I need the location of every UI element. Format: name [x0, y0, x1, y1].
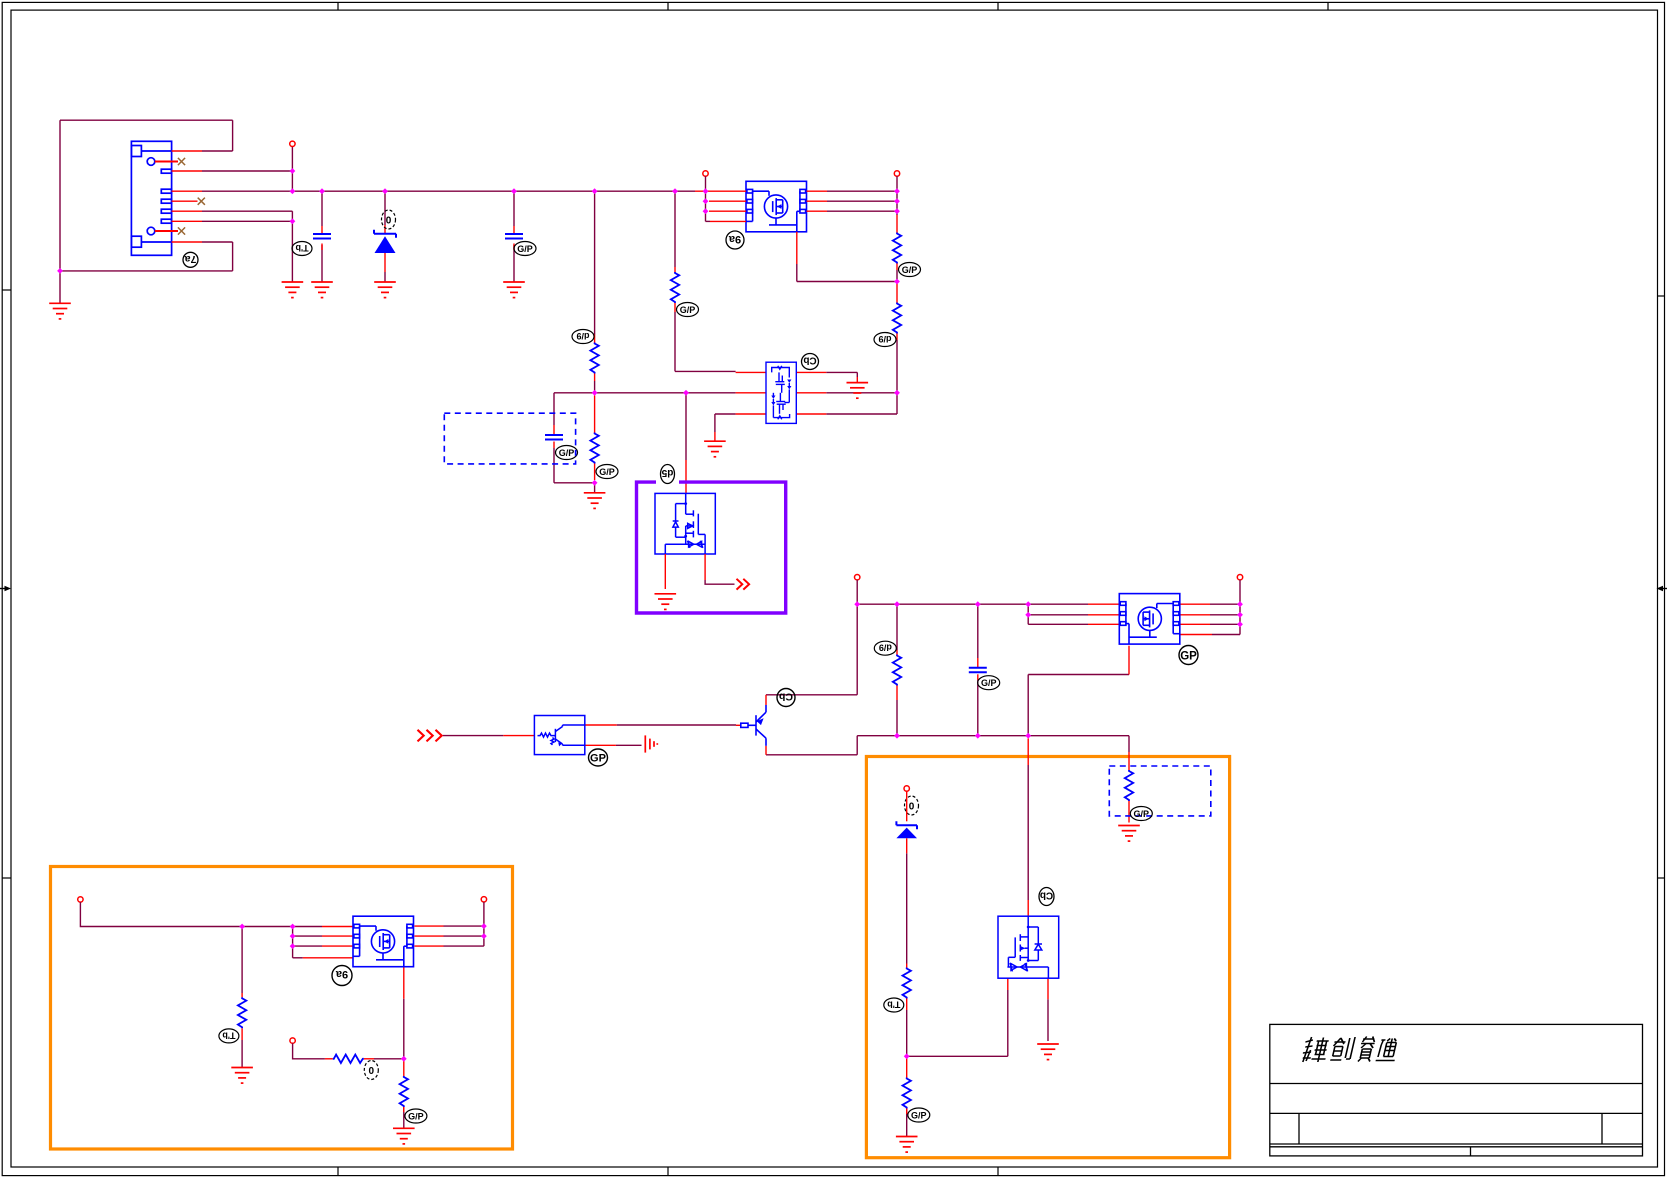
resistor R7 — [903, 968, 911, 999]
red Q7 right pin — [1047, 978, 1049, 999]
junction dualQ right row2 — [894, 390, 900, 396]
wire R3 top from bus — [594, 191, 596, 334]
wire pin7 horizontal — [202, 220, 292, 222]
mosfet Q8 qa2 package — [353, 916, 414, 967]
red R2 bottom — [896, 334, 898, 341]
svg-text:d/9: d/9 — [878, 334, 891, 344]
wire Q7 drain feed — [1027, 765, 1029, 900]
wire GP bottom L vertical — [1027, 675, 1029, 736]
junction Q1 left row1 — [703, 188, 709, 194]
red Q1 row2 left stub — [709, 200, 746, 202]
red qa2 right row2 — [415, 935, 444, 937]
pin5 stub nc — [172, 200, 198, 202]
no-connect X pin5 — [198, 198, 205, 205]
terminal bus2 right — [1237, 575, 1242, 580]
wire dualQ row3 right — [826, 413, 897, 415]
svg-text:Cb: Cb — [1040, 890, 1053, 901]
dual mosfet Q2 label — [802, 354, 819, 370]
red opto input stub — [503, 735, 534, 737]
resistor R12 label — [405, 1109, 427, 1123]
red D1 top — [384, 225, 386, 234]
junction Q1 right row3 — [894, 208, 900, 214]
ground C1 — [311, 282, 333, 298]
junction pin7 — [290, 218, 296, 224]
terminal R11 left — [290, 1038, 295, 1043]
zener D1 label — [382, 210, 396, 229]
wire dualQ row1 right — [826, 371, 857, 373]
wire row736 — [857, 735, 1129, 737]
junction bus R3 — [592, 188, 598, 194]
red D1 bottom — [384, 253, 386, 272]
junction bus2 R6 — [894, 601, 900, 607]
wire hook left vertical — [59, 120, 61, 303]
wire GP right row2 — [1210, 614, 1240, 616]
terminal VT1 — [290, 141, 295, 146]
top zone tick 1 — [337, 2, 339, 10]
wire row624 — [1028, 623, 1088, 625]
junction bus C1 — [319, 188, 325, 194]
wire Q7 source drop — [1007, 990, 1009, 1056]
wire qa2 right row1 — [444, 925, 484, 927]
resistor R4 — [590, 433, 598, 464]
junction right col row3 — [1237, 621, 1243, 627]
wire qa2 right row3 — [444, 945, 484, 947]
junction R11 R12 — [401, 1056, 407, 1062]
wire dualQ row3 gnd drop — [714, 414, 716, 432]
bottom zone tick 2 — [667, 1167, 669, 1176]
svg-text:d5: d5 — [661, 467, 673, 478]
wire qa2 right row2 — [444, 935, 484, 937]
red opto row1 stub — [585, 724, 617, 726]
red GP right row3 stub — [1180, 623, 1210, 625]
red qa2 row3 left — [322, 945, 353, 947]
red C4 bottom — [553, 442, 555, 449]
mosfet Q4 label — [1179, 646, 1198, 665]
red R3 top — [594, 335, 596, 343]
title block cell divider right — [1601, 1113, 1603, 1144]
resistor R1 label — [899, 263, 921, 277]
red qa2 row2 left — [322, 935, 353, 937]
junction R1 bottom — [894, 279, 900, 285]
resistor R2 — [893, 303, 901, 334]
svg-text:T'b: T'b — [222, 1030, 236, 1040]
resistor R5 label — [677, 303, 699, 317]
red gate drop into purple box — [685, 460, 687, 493]
pin2 stub nc — [155, 161, 178, 163]
junction qa2 col row3 — [290, 943, 296, 949]
red C2 top — [513, 226, 515, 234]
wire zener D1 bottom lead — [384, 272, 386, 282]
svg-text:G/P: G/P — [902, 265, 918, 275]
svg-text:7a: 7a — [185, 253, 197, 265]
wire R9 feed — [1128, 736, 1130, 752]
purple function box — [637, 482, 786, 613]
bottom zone tick 3 — [997, 1167, 999, 1176]
wire R5 bottom — [674, 312, 676, 371]
junction bus2 left — [854, 601, 860, 607]
capacitor C5 label — [978, 676, 1000, 690]
mosfet Q1 package — [746, 181, 807, 232]
mosfet Q1 label — [726, 231, 744, 249]
mosfet Q7 package — [998, 916, 1059, 978]
junction Q1 left row2 — [703, 198, 709, 204]
wire zener D1 top lead — [384, 191, 386, 225]
junction bus3 qa2 — [290, 924, 296, 930]
red qa2 bottom pin — [403, 967, 405, 999]
resistor R5 — [671, 272, 679, 303]
wire R3 bottom — [594, 381, 596, 393]
zener D2 label — [905, 796, 919, 815]
mosfet Q3 package in purple box — [655, 493, 715, 554]
wire row372 horizontal — [675, 370, 736, 372]
junction row736 C5 — [975, 733, 981, 739]
title block row line 2 — [1270, 1112, 1643, 1114]
wire R7 to junction — [906, 1010, 908, 1056]
red GP right row4 stub — [1180, 634, 1212, 636]
wire cap C1 top lead — [321, 191, 323, 226]
title block row line 1 — [1270, 1083, 1643, 1085]
red pin segments near components — [322, 225, 514, 272]
svg-text:G/P: G/P — [599, 467, 615, 477]
wire pin6 drop vertical — [291, 211, 293, 282]
wire C5 top — [977, 604, 979, 658]
red Q6 emitter stub — [765, 746, 767, 755]
left mid edge arrow — [0, 586, 11, 592]
wire GP right row1 — [1210, 603, 1240, 605]
red R11 left — [325, 1058, 333, 1060]
wire bus2 left drop to collector — [856, 604, 858, 695]
terminal Q1 left — [703, 171, 708, 176]
mosfet Q8 label — [332, 966, 352, 986]
title block bottom divider — [1470, 1147, 1472, 1156]
connector J1 body — [131, 141, 171, 255]
red Q7 drain upper — [1027, 739, 1029, 766]
optocoupler U1 package — [534, 716, 584, 755]
wire cap C1 bottom lead — [321, 245, 323, 282]
red bus3 into qa2 — [322, 926, 353, 928]
wire Q1 bottom to R1 — [797, 281, 897, 283]
red C1 bottom — [321, 244, 323, 251]
red Q1 row2 right stub — [807, 200, 828, 202]
svg-text:T'b: T'b — [887, 1000, 901, 1010]
pin3 stub — [172, 170, 202, 172]
wire gate drop from row393 — [685, 393, 687, 460]
red R4 top — [594, 396, 596, 433]
title block outer box — [1270, 1024, 1643, 1156]
pin9 stub — [172, 241, 202, 243]
resistor R7 label — [884, 998, 904, 1012]
svg-text:9a: 9a — [728, 233, 741, 245]
pin8 stub nc — [155, 230, 178, 232]
wire hook right vertical top — [232, 120, 234, 151]
red dualQ row3 gnd — [714, 432, 716, 441]
red Q1 row1 left stub — [695, 190, 746, 192]
resistor R3 label — [572, 330, 594, 344]
red C2 bottom — [513, 244, 515, 251]
svg-text:G/P: G/P — [680, 305, 696, 315]
wire GP bottom L horizontal — [1028, 674, 1129, 676]
red dualQ row3 right stub — [796, 413, 826, 415]
wire R1 bottom purple — [896, 270, 898, 282]
junction right col row1 — [1237, 601, 1243, 607]
wire qa2 row2 left — [293, 935, 322, 937]
junction row393 R3 — [592, 390, 598, 396]
ground pincol — [282, 282, 304, 298]
wire cap C2 top lead — [513, 191, 515, 226]
top zone tick 3 — [997, 2, 999, 10]
svg-text:G/P: G/P — [1134, 809, 1150, 819]
svg-text:0: 0 — [369, 1066, 375, 1077]
wire R12 to ground — [403, 1107, 405, 1128]
wire qa2 stub col — [292, 927, 294, 958]
wire Q7 right pin down — [1047, 999, 1049, 1041]
junction row483 — [592, 480, 598, 486]
terminal qa2 right — [481, 897, 486, 902]
capacitor C4 — [545, 435, 563, 440]
junction qa2 col row2 — [290, 933, 296, 939]
transistor Q6 label — [777, 689, 795, 707]
wire Q1 right terminal stub — [896, 176, 898, 215]
red R10 top — [241, 993, 243, 997]
purple box label — [661, 465, 675, 484]
wire right terminal stub — [1239, 580, 1241, 635]
red R1 top — [896, 215, 898, 233]
red R7 bottom — [906, 999, 908, 1011]
top zone tick 2 — [667, 2, 669, 10]
svg-text:G/P: G/P — [408, 1112, 424, 1122]
dashed option box 1 — [444, 413, 575, 464]
wire bus1 segment a — [202, 190, 695, 192]
connector J1 label — [183, 252, 198, 267]
wire R6 bottom — [896, 700, 898, 736]
red GP right row1 stub — [1180, 603, 1210, 605]
wire collector row — [766, 694, 857, 696]
junction pin3 — [290, 168, 296, 174]
wire Q1 row2 right — [827, 200, 897, 202]
red dualQ row2 right stub — [796, 392, 826, 394]
red row615 into GP pin — [1088, 614, 1119, 616]
resistor R3 — [590, 343, 598, 374]
junction bus2 C5 — [975, 601, 981, 607]
svg-text:T'b: T'b — [295, 243, 309, 253]
red R5 top — [674, 267, 676, 272]
wire opto out row2 — [616, 744, 642, 746]
junction bus D1 — [382, 188, 388, 194]
right mid edge arrow — [1657, 586, 1667, 592]
svg-text:GP: GP — [1180, 651, 1197, 663]
svg-text:0: 0 — [909, 802, 915, 813]
ground Q7 right — [1037, 1044, 1059, 1060]
wire terminal stub vertical — [291, 147, 293, 192]
ground hook — [49, 303, 71, 319]
red row624 into GP pin — [1088, 623, 1119, 625]
no-connect X pin2 — [178, 158, 185, 165]
wire row393 horizontal — [554, 392, 736, 394]
ground R10 — [231, 1068, 253, 1084]
capacitor C2 label — [514, 242, 536, 256]
wire Q1 left terminal stub — [705, 176, 707, 221]
wire R2 bottom purple — [896, 340, 898, 393]
red R5 bottom — [674, 303, 676, 312]
wire dualQ row1 gnd drop — [856, 372, 858, 377]
red opto row2 stub — [585, 744, 616, 746]
right zone tick 1 — [1658, 295, 1665, 297]
wire GP right row4 — [1212, 634, 1240, 636]
red R8 top — [906, 1056, 908, 1077]
wire row483 horizontal — [554, 482, 595, 484]
resistor R8 — [903, 1078, 911, 1109]
title block row line 4 — [1270, 1146, 1643, 1148]
svg-text:G/P: G/P — [559, 448, 575, 458]
red C5 top — [977, 658, 979, 668]
svg-text:Cb: Cb — [779, 691, 793, 703]
wire emitter row — [766, 754, 857, 756]
junction Q1 left row3 — [703, 208, 709, 214]
ground R4 — [584, 493, 606, 509]
junction bus C2 — [511, 188, 517, 194]
resistor R11 label — [364, 1061, 378, 1080]
junction bus3 R10 — [239, 924, 245, 930]
wire hook top horizontal — [60, 119, 233, 121]
junction row615 — [1025, 612, 1031, 618]
wire cap C2 bottom lead — [513, 245, 515, 282]
resistor R10 — [238, 997, 246, 1028]
wire dualQ row2 right — [826, 392, 897, 394]
red bus2 into GP pin — [1088, 603, 1119, 605]
red R6 top — [896, 650, 898, 655]
wire R11 to junction — [374, 1058, 404, 1060]
red Q3 out lead — [704, 554, 706, 580]
wire R5 top from bus — [674, 191, 676, 267]
wire pin6 horizontal — [202, 210, 292, 212]
svg-text:G/P: G/P — [911, 1111, 927, 1121]
red qa2 right row1 — [415, 925, 444, 927]
svg-text:d/9: d/9 — [879, 643, 892, 653]
orange function box right — [866, 757, 1229, 1158]
junction bus R5 — [672, 188, 678, 194]
wire row615 — [1028, 614, 1088, 616]
wire R10 bottom — [241, 1040, 243, 1068]
title block row line 3 — [1270, 1143, 1643, 1145]
wire Q3 out horizontal — [705, 580, 734, 584]
red Q3 gnd lead — [664, 554, 666, 589]
resistor R6 label — [874, 641, 896, 655]
pin1 stub — [172, 150, 202, 152]
wire gnd stub R4 — [594, 483, 596, 493]
bottom zone tick 1 — [337, 1167, 339, 1176]
red R8 bottom — [906, 1109, 908, 1115]
wire cap C4 bottom — [553, 448, 555, 483]
wire Q1 row3 right — [827, 210, 897, 212]
optocoupler U1 label — [589, 749, 608, 766]
junction row736 1028 — [1025, 733, 1031, 739]
wire bus2 main — [857, 603, 1088, 605]
red dualQ row1 left stub — [736, 371, 766, 373]
terminal bus2 left — [855, 575, 860, 580]
ground dualQ row3 — [704, 441, 726, 457]
resistor R8 label — [908, 1108, 930, 1122]
orange function box left — [51, 867, 513, 1150]
junction hook gnd — [57, 268, 63, 274]
wire Q1 bottom pin lower — [796, 264, 798, 282]
wire stub1028 vertical — [1027, 604, 1029, 624]
red R6 bottom — [896, 686, 898, 701]
off-page input chevrons — [418, 730, 442, 742]
red GP right row2 stub — [1180, 614, 1210, 616]
wire cap C4 top — [553, 393, 555, 425]
terminal bus3 left — [78, 897, 83, 902]
off-page output chevrons — [737, 579, 750, 590]
junction bus2 1028 — [1025, 601, 1031, 607]
svg-text:G/P: G/P — [517, 244, 533, 254]
red Q1 row3 left stub — [709, 210, 746, 212]
wire qa2 right col — [483, 902, 485, 946]
pin7 stub — [172, 220, 202, 222]
wire R10 top — [241, 927, 243, 994]
pin6 stub — [172, 210, 202, 212]
terminal zener D2 — [904, 786, 909, 791]
svg-text:Cb: Cb — [803, 355, 816, 366]
resistor R10 label — [219, 1029, 239, 1043]
transistor Q6 PNP — [741, 705, 766, 746]
resistor R4 label — [596, 465, 618, 479]
red R7 top — [906, 964, 908, 968]
svg-text:G/P: G/P — [981, 678, 997, 688]
red R1 bottom — [896, 264, 898, 271]
red dualQ row2 left stub — [736, 392, 766, 394]
resistor R9 — [1125, 770, 1133, 801]
wire bus3 left stub — [80, 902, 322, 926]
dashed option box 2 — [1109, 766, 1211, 816]
svg-text:GP: GP — [590, 753, 606, 765]
red R10 bottom — [241, 1028, 243, 1040]
no-connect X pin8 — [178, 227, 185, 234]
ground R12 — [393, 1128, 415, 1144]
resistor R2 label — [874, 333, 896, 347]
red Q6 collector stub — [765, 695, 767, 705]
red Q1 row3 right stub — [807, 210, 828, 212]
red R9 bottom — [1128, 801, 1130, 823]
wire pin9 horizontal — [202, 241, 233, 243]
wire bus2 left terminal stub — [856, 580, 858, 604]
wire pin1 hook horizontal — [202, 150, 233, 152]
junction qa2 right col row2 — [481, 933, 487, 939]
junction qa2 right col row1 — [481, 923, 487, 929]
ground D1 — [374, 282, 396, 298]
wire hook right vertical bottom — [232, 242, 234, 271]
resistor R6 — [893, 655, 901, 686]
red Q6 base stub — [736, 724, 741, 726]
ground C2 — [503, 282, 525, 298]
capacitor C1 label — [292, 242, 312, 256]
mosfet Q7 label — [1039, 888, 1054, 906]
red qa2 right row3 — [415, 945, 444, 947]
rotated ground opto — [645, 735, 657, 752]
red R12 bottom — [403, 1107, 405, 1112]
pin4 stub — [172, 190, 202, 192]
wire opto out row1 — [617, 724, 736, 726]
red Q7 left source pin — [1007, 978, 1009, 990]
junction Q1 right row2 — [894, 198, 900, 204]
red dualQ row1 gnd — [856, 377, 858, 383]
ground R8 — [896, 1137, 918, 1153]
wire Q1 row4 entry — [706, 220, 711, 222]
left zone tick 1 — [2, 289, 11, 291]
wire dualQ right drop — [896, 393, 898, 414]
red C1 top — [321, 226, 323, 234]
wire dualQ row3 left — [715, 413, 736, 415]
junction row393 gate — [683, 390, 689, 396]
